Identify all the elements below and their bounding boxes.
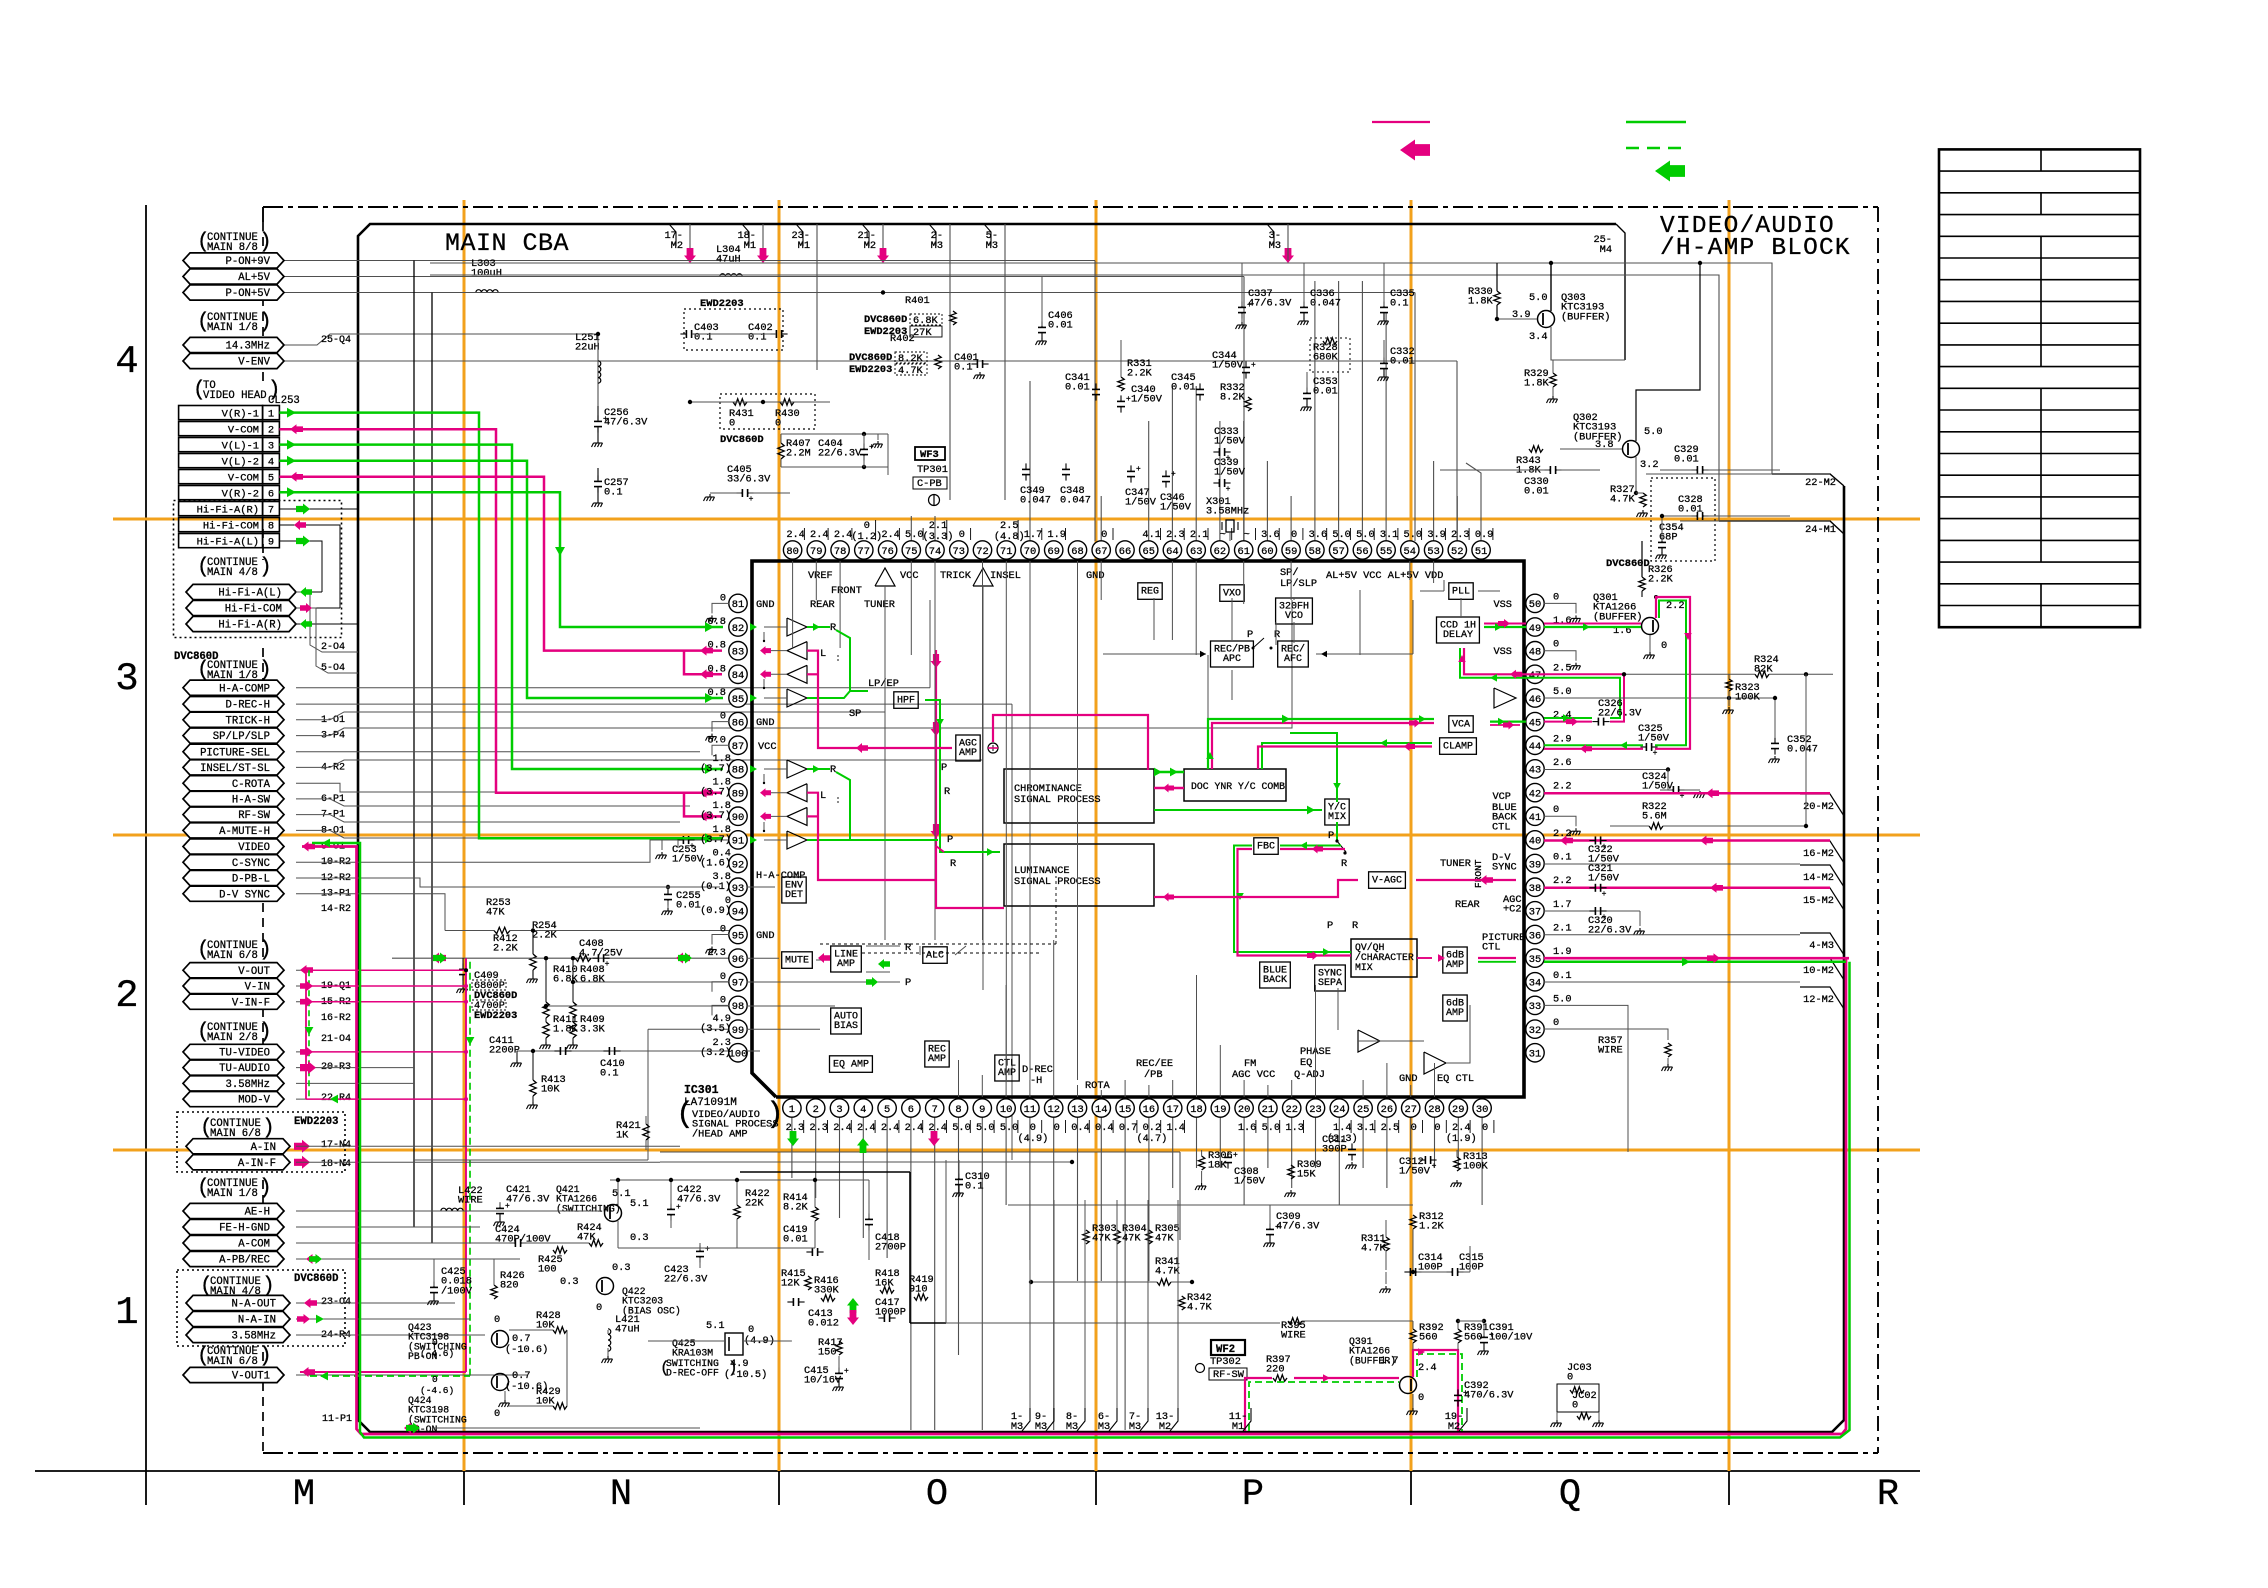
svg-text:R: R — [944, 786, 950, 798]
wire C-SYNC to C253 pin92 — [296, 840, 729, 862]
svg-text:+: + — [1136, 465, 1141, 474]
svg-text:49: 49 — [1529, 623, 1541, 635]
resistor R407 — [778, 443, 784, 459]
svg-text:5.0: 5.0 — [976, 1122, 995, 1134]
wire AL+5V rail — [284, 276, 1244, 278]
orange grid horizontal y519 — [113, 518, 1920, 521]
frame tick bottom x1411 — [1410, 1453, 1412, 1505]
svg-text:GND: GND — [1086, 570, 1105, 582]
svg-text:1.4: 1.4 — [1166, 1122, 1185, 1134]
svg-text:100uH: 100uH — [471, 268, 502, 280]
svg-text:11-P1: 11-P1 — [322, 1414, 352, 1425]
svg-text:10K: 10K — [541, 1084, 560, 1096]
svg-text:47: 47 — [1529, 670, 1541, 682]
svg-text:Hi-Fi-COM: Hi-Fi-COM — [225, 604, 282, 616]
svg-text:2700P: 2700P — [875, 1242, 906, 1254]
svg-text:14.3MHz: 14.3MHz — [225, 341, 270, 353]
svg-text:0: 0 — [1567, 1372, 1573, 1384]
svg-text:3: 3 — [268, 440, 274, 452]
svg-text:17: 17 — [1166, 1104, 1178, 1116]
svg-text:(3.2): (3.2) — [700, 1047, 731, 1059]
svg-text:2.9: 2.9 — [1553, 733, 1572, 745]
svg-text:14-R2: 14-R2 — [321, 904, 351, 915]
transistor Q391 — [1400, 1377, 1417, 1394]
svg-text:(3.7): (3.7) — [700, 810, 731, 822]
svg-text:FBC: FBC — [1257, 841, 1275, 852]
wire Q302 base — [1560, 448, 1622, 450]
EWD2203 dotted box top — [684, 309, 783, 350]
svg-text:2.2K: 2.2K — [532, 930, 558, 942]
svg-text:100K: 100K — [1463, 1161, 1489, 1173]
svg-text:1.7: 1.7 — [1024, 529, 1043, 541]
svg-text:GND: GND — [1399, 1073, 1418, 1085]
svg-text:Hi-Fi-A(L): Hi-Fi-A(L) — [218, 588, 282, 600]
resistor R411 — [545, 1018, 547, 1022]
svg-text:V-COM: V-COM — [228, 472, 259, 484]
block HPF — [894, 692, 918, 709]
block EQ AMP — [830, 1056, 873, 1073]
svg-text:91: 91 — [732, 836, 744, 848]
block Y/C MIX — [1325, 799, 1349, 825]
FBC to QV/QH pair — [1234, 846, 1351, 953]
IC301 pin name labels — [756, 567, 1525, 1092]
svg-text:47K: 47K — [1092, 1233, 1111, 1245]
amp output magenta arrows at pins — [760, 646, 771, 655]
resistor R413 — [531, 1049, 535, 1053]
wire r431 bus — [690, 401, 830, 403]
svg-text:A-COM: A-COM — [238, 1239, 270, 1251]
svg-text:+: + — [1463, 1389, 1468, 1398]
svg-text:2.2: 2.2 — [1553, 875, 1572, 887]
svg-text:+: + — [705, 1245, 710, 1254]
wire 14.3MHz to 25-Q4 — [284, 334, 598, 345]
wire Q425 to pin line — [743, 1340, 792, 1342]
svg-text:28: 28 — [1428, 1104, 1440, 1116]
svg-text:N-A-OUT: N-A-OUT — [231, 1299, 276, 1311]
svg-text:ALC: ALC — [926, 950, 944, 961]
svg-text:TUNER: TUNER — [864, 599, 895, 611]
svg-text:M1: M1 — [798, 240, 810, 252]
svg-text:47/6.3V: 47/6.3V — [604, 417, 648, 429]
connector RF-SW — [183, 807, 284, 822]
svg-text:22: 22 — [1285, 1104, 1297, 1116]
connector H-A-SW — [183, 791, 284, 806]
svg-text:/100V: /100V — [441, 1285, 473, 1297]
svg-text:21-O4: 21-O4 — [321, 1034, 351, 1045]
svg-text:30: 30 — [1476, 1104, 1488, 1116]
resistor R328 — [1310, 338, 1350, 372]
svg-text:(SWITCHING): (SWITCHING) — [556, 1203, 621, 1214]
svg-text:SP: SP — [849, 708, 861, 720]
svg-text:EWD2203: EWD2203 — [294, 1116, 339, 1128]
svg-text:(: ( — [197, 659, 210, 682]
DVC860D dotted box C328 C354 — [1651, 478, 1715, 561]
EWD2203 dotted box — [177, 1112, 345, 1172]
svg-text:0: 0 — [720, 994, 726, 1006]
svg-text:M3: M3 — [1269, 240, 1281, 252]
connector N-A-IN — [186, 1311, 290, 1326]
svg-text:2200P: 2200P — [489, 1045, 520, 1057]
svg-text:Hi-Fi-COM: Hi-Fi-COM — [203, 520, 259, 532]
svg-text:C-ROTA: C-ROTA — [232, 779, 271, 791]
svg-text:CLAMP: CLAMP — [1443, 741, 1473, 752]
svg-text:L: L — [820, 790, 826, 802]
svg-text:0.4: 0.4 — [1071, 1122, 1090, 1134]
svg-text:EWD2203: EWD2203 — [700, 298, 744, 310]
svg-text:39: 39 — [1529, 859, 1541, 871]
wire TU-VIDEO row — [296, 1051, 432, 1053]
svg-text:0.012: 0.012 — [808, 1318, 839, 1330]
svg-text:APC: APC — [1223, 654, 1241, 665]
svg-text:+: + — [1602, 843, 1607, 852]
svg-text:0.01: 0.01 — [1171, 382, 1196, 394]
wire pin45 green from VCA — [1490, 720, 1526, 722]
svg-text:TP301: TP301 — [917, 464, 948, 476]
magenta route V-COM to pins 89/90 — [279, 429, 722, 793]
wire to tab 24-M1 — [1363, 275, 1719, 521]
svg-text:A-IN-F: A-IN-F — [238, 1158, 276, 1170]
svg-text:47uH: 47uH — [615, 1324, 640, 1336]
svg-text:(BUFFER): (BUFFER) — [1593, 611, 1642, 623]
svg-text:(: ( — [660, 1359, 670, 1377]
svg-text:A-IN: A-IN — [251, 1142, 276, 1154]
svg-text:40: 40 — [1529, 836, 1541, 848]
capacitor C409 stack — [462, 958, 464, 968]
svg-text:4: 4 — [268, 456, 274, 468]
svg-text:MUTE: MUTE — [785, 955, 809, 966]
svg-text:GND: GND — [756, 930, 775, 942]
svg-text:CTL: CTL — [1492, 821, 1511, 833]
svg-text:M2: M2 — [671, 240, 683, 252]
colored pin47 to C326 to pin45 loop — [1544, 674, 1624, 721]
transistor Q424 — [492, 1374, 509, 1391]
wire trick down — [884, 586, 886, 598]
svg-text:0: 0 — [494, 1408, 500, 1420]
svg-text:(4.9): (4.9) — [1017, 1133, 1048, 1145]
resistor R253 — [445, 930, 494, 932]
arrow pair A-PB/REC — [306, 1254, 319, 1264]
svg-text:3.4: 3.4 — [1529, 331, 1548, 343]
IC301 right pin stub wires — [1544, 603, 1581, 835]
svg-text:(-4.6): (-4.6) — [420, 1348, 454, 1359]
svg-text:100: 100 — [729, 1049, 748, 1061]
svg-text:N-A-IN: N-A-IN — [238, 1315, 276, 1327]
IC301 left pin stub wires — [706, 603, 730, 1015]
svg-text:1.8K: 1.8K — [1468, 296, 1494, 308]
ground C253 — [661, 840, 663, 850]
green route V(L)-2 to pin85 — [279, 461, 723, 698]
wire A-MUTE-H — [296, 830, 670, 838]
svg-text:0: 0 — [432, 1337, 438, 1348]
svg-text:1.7: 1.7 — [1380, 1355, 1399, 1367]
svg-text:O: O — [926, 1474, 948, 1516]
legend magenta record line — [1372, 121, 1430, 123]
orange grid vertical x1729 — [1728, 200, 1731, 1471]
svg-text:/PB: /PB — [1144, 1069, 1163, 1081]
wire pin39 14-M2 — [1544, 863, 1800, 865]
svg-text:0.01: 0.01 — [1678, 504, 1703, 516]
svg-text:0.01: 0.01 — [1313, 386, 1338, 398]
frame tick bottom x464 — [463, 1453, 465, 1505]
svg-text:22/6.3V: 22/6.3V — [1598, 708, 1642, 720]
connector AL+5V — [183, 269, 284, 284]
wire pin33 12-M2 — [1544, 1005, 1628, 1152]
magenta pin47 to CCD delay loop — [1464, 648, 1544, 674]
svg-text:(3.7): (3.7) — [700, 763, 731, 775]
svg-text:10: 10 — [1000, 1104, 1012, 1116]
block FBC — [1254, 838, 1278, 855]
svg-text:100/10V: 100/10V — [1489, 1332, 1533, 1344]
connector V-OUT1 — [183, 1367, 284, 1382]
svg-text:PICTURE-SEL: PICTURE-SEL — [200, 747, 270, 759]
svg-text:REAR: REAR — [810, 599, 835, 611]
svg-text:R: R — [1352, 920, 1358, 932]
svg-text:Hi-Fi-A(R): Hi-Fi-A(R) — [197, 504, 259, 516]
svg-text:): ) — [262, 1117, 275, 1140]
svg-text:P: P — [941, 762, 947, 774]
wire R312 down — [1412, 1229, 1414, 1272]
svg-text:EQ AMP: EQ AMP — [833, 1059, 869, 1070]
svg-text:0.1: 0.1 — [604, 487, 623, 499]
svg-text:0: 0 — [1434, 1122, 1440, 1134]
bus Q421 emitter rail — [618, 1247, 815, 1249]
frame tick bottom x1096 — [1095, 1453, 1097, 1505]
svg-text:8: 8 — [955, 1104, 961, 1116]
svg-text:14-M2: 14-M2 — [1803, 872, 1834, 884]
svg-text:0.047: 0.047 — [1310, 298, 1341, 310]
transistor Q301 — [1642, 618, 1659, 635]
svg-text:20: 20 — [1238, 1104, 1250, 1116]
svg-text:24: 24 — [1333, 1104, 1345, 1116]
svg-text:BIAS: BIAS — [834, 1021, 858, 1032]
svg-text:1/50V: 1/50V — [1160, 502, 1192, 514]
svg-text:1/50V: 1/50V — [1234, 1176, 1266, 1188]
svg-text:TU-AUDIO: TU-AUDIO — [219, 1063, 270, 1075]
svg-text:R: R — [1341, 858, 1347, 870]
svg-text:77: 77 — [858, 546, 870, 558]
svg-text:CTL: CTL — [1482, 942, 1501, 954]
svg-text:SP/LP/SLP: SP/LP/SLP — [213, 731, 270, 743]
green VIDEO pair vertical — [312, 843, 1850, 1438]
svg-text:+: + — [1432, 1162, 1437, 1171]
svg-text:V-AGC: V-AGC — [1372, 875, 1402, 886]
block BLUE BACK — [1260, 962, 1291, 988]
block ALC — [923, 947, 947, 964]
svg-text:12-M2: 12-M2 — [1803, 994, 1834, 1006]
wire Q391 emitter — [1412, 1394, 1414, 1408]
down arrow V-IN-F — [305, 1027, 314, 1035]
svg-text:(-10.5): (-10.5) — [724, 1369, 767, 1381]
wire V-IN row — [296, 985, 432, 987]
svg-text:3: 3 — [836, 1104, 842, 1116]
block QV/QH CHARACTER MIX — [1351, 939, 1417, 977]
svg-text:R: R — [1274, 629, 1280, 641]
block AGC AMP — [956, 735, 980, 761]
svg-text:3.58MHz: 3.58MHz — [231, 1331, 276, 1343]
svg-text:62: 62 — [1214, 546, 1226, 558]
block LINE AMP — [831, 946, 862, 972]
svg-text:3: 3 — [115, 657, 138, 701]
frame tick bottom x1729 — [1728, 1453, 1730, 1505]
svg-text:REG: REG — [1141, 586, 1159, 597]
svg-text:4.7K: 4.7K — [1187, 1302, 1213, 1314]
svg-text:5.0: 5.0 — [905, 529, 924, 541]
wire D-V SYNC to R253 pin94 — [296, 894, 445, 931]
svg-text:2.2K: 2.2K — [1648, 574, 1674, 586]
vertical bus from P-ON+5V — [431, 293, 433, 1244]
svg-text:+: + — [1126, 395, 1131, 404]
svg-text:6.8K: 6.8K — [553, 974, 579, 986]
wire pin38 magenta 15-M2 — [1544, 887, 1830, 890]
svg-text:0.01: 0.01 — [1524, 486, 1549, 498]
IC301 right pins 50-31 — [1526, 591, 1572, 1062]
wire Q425 5.1 line — [648, 1340, 725, 1342]
resistor R254 — [531, 928, 535, 932]
svg-text:37: 37 — [1529, 907, 1541, 919]
svg-text:0.1: 0.1 — [1553, 852, 1572, 864]
svg-text:2.6: 2.6 — [1553, 757, 1572, 769]
svg-text:ROTA: ROTA — [1085, 1080, 1111, 1092]
svg-text:DOC YNR Y/C COMB: DOC YNR Y/C COMB — [1191, 781, 1285, 792]
magenta AGC AMP wires — [988, 747, 998, 749]
wire P-ON+5V rail — [284, 292, 1415, 294]
VCA pair from DOC YNR — [1208, 719, 1434, 769]
svg-text:M2: M2 — [1448, 1421, 1460, 1433]
svg-text:DELAY: DELAY — [1443, 630, 1473, 641]
connector A-COM — [183, 1235, 284, 1250]
svg-text:26: 26 — [1381, 1104, 1393, 1116]
svg-text:HPF: HPF — [897, 695, 915, 706]
svg-text:4.7K: 4.7K — [1610, 494, 1636, 506]
svg-text:4.1: 4.1 — [1142, 529, 1161, 541]
capacitor C408 — [592, 957, 598, 959]
wire pin99 — [648, 1028, 729, 1030]
magenta web chrominance — [807, 651, 952, 748]
block VCA — [1449, 716, 1473, 733]
svg-text:WF2: WF2 — [1216, 1344, 1235, 1356]
svg-text:1.8K: 1.8K — [1516, 465, 1542, 477]
svg-text:71: 71 — [1000, 546, 1012, 558]
svg-text:+: + — [1489, 1331, 1494, 1340]
svg-text:76: 76 — [881, 546, 893, 558]
svg-text:P-ON+5V: P-ON+5V — [225, 288, 270, 300]
svg-text:0.8: 0.8 — [707, 687, 726, 699]
svg-text:TP302: TP302 — [1210, 1356, 1241, 1368]
svg-text:0.047: 0.047 — [1787, 744, 1818, 756]
svg-text:H-A-COMP: H-A-COMP — [219, 683, 270, 695]
svg-text:C-PB: C-PB — [917, 478, 942, 490]
svg-text:MIX: MIX — [1355, 962, 1373, 973]
svg-text:0: 0 — [959, 529, 965, 541]
wire Q301 emitter gnd — [1649, 635, 1651, 652]
svg-text:AE-H: AE-H — [245, 1207, 270, 1219]
resistor R430 — [780, 399, 794, 405]
svg-text:VCA: VCA — [1452, 719, 1470, 730]
svg-text:2: 2 — [268, 424, 274, 436]
svg-text:0: 0 — [1553, 804, 1559, 816]
revision table top right — [1939, 149, 2140, 627]
svg-text:+: + — [749, 495, 754, 504]
left column dashed border — [262, 222, 264, 385]
connector AE-H — [183, 1203, 284, 1218]
capacitor C255 — [666, 885, 670, 889]
CLAMP pair to DOC YNR — [1262, 743, 1432, 769]
svg-text:(0.9): (0.9) — [700, 905, 731, 917]
svg-text:MAIN 2/8: MAIN 2/8 — [207, 1032, 258, 1044]
wire V-ENV — [284, 360, 1457, 362]
arrow Hi-Fi-COM row — [294, 520, 306, 530]
wire SP/LP/SLP — [296, 600, 1292, 736]
svg-text:R: R — [1877, 1474, 1899, 1516]
svg-text:P: P — [1328, 830, 1334, 842]
svg-text:M3: M3 — [1066, 1421, 1078, 1433]
svg-text:78: 78 — [834, 546, 846, 558]
svg-text:DVC860D: DVC860D — [864, 314, 907, 326]
svg-text:75: 75 — [905, 546, 917, 558]
transistor Q303 — [1538, 311, 1555, 328]
green web chrom to Y/C MIX — [1154, 809, 1322, 811]
svg-text:33: 33 — [1529, 1001, 1541, 1013]
connector V-OUT — [183, 963, 284, 978]
svg-text:5.6M: 5.6M — [1642, 811, 1667, 823]
svg-text:84: 84 — [732, 670, 744, 682]
input amplifier triangles — [787, 618, 807, 849]
svg-text:DET: DET — [785, 890, 803, 901]
svg-text:2: 2 — [813, 1104, 819, 1116]
magenta arrow A-IN-F — [294, 1156, 310, 1169]
svg-text:(1.9): (1.9) — [1446, 1133, 1477, 1145]
magenta wire TU-VIDEO — [300, 1047, 313, 1057]
svg-text:4.7/25V: 4.7/25V — [579, 948, 623, 960]
svg-text:): ) — [259, 556, 272, 579]
svg-text:18-N4: 18-N4 — [321, 1159, 351, 1170]
IC301 top pins 80-51 — [783, 520, 1493, 559]
wire insel down — [982, 586, 984, 598]
connector V-IN — [183, 978, 284, 993]
svg-text:(: ( — [200, 1117, 213, 1140]
svg-text:): ) — [259, 231, 272, 254]
block boundary dash-dot border — [263, 206, 1878, 208]
svg-text:63: 63 — [1190, 546, 1202, 558]
DVC860D dotted box — [177, 1270, 345, 1346]
svg-text:27K: 27K — [913, 327, 932, 339]
svg-text:88: 88 — [732, 765, 744, 777]
svg-text:FE-H-GND: FE-H-GND — [219, 1223, 270, 1235]
svg-text:0: 0 — [596, 1302, 602, 1314]
svg-text:72: 72 — [976, 546, 988, 558]
svg-text:1/50V: 1/50V — [1642, 781, 1674, 793]
svg-text:+: + — [1247, 301, 1252, 310]
svg-text:+: + — [505, 1202, 510, 1211]
svg-text:0: 0 — [1553, 1017, 1559, 1029]
svg-text:5.0: 5.0 — [1332, 529, 1351, 541]
svg-text:VXO: VXO — [1223, 588, 1241, 599]
svg-text:820: 820 — [500, 1280, 519, 1292]
svg-text:(: ( — [197, 1345, 210, 1368]
svg-text:58: 58 — [1309, 546, 1321, 558]
svg-text:+: + — [1602, 890, 1607, 899]
green CCD loop — [1484, 626, 1526, 628]
svg-text:2.1: 2.1 — [1190, 529, 1209, 541]
arrow hexagon Hi-Fi-A(R) — [300, 619, 312, 629]
svg-text:12K: 12K — [781, 1278, 800, 1290]
svg-text:2.3: 2.3 — [1451, 529, 1470, 541]
wire 24-M1 horiz — [1680, 520, 1830, 522]
svg-text:5.0: 5.0 — [1529, 292, 1548, 304]
svg-text:INSEL: INSEL — [990, 570, 1021, 582]
svg-text:56: 56 — [1356, 546, 1368, 558]
svg-text:60: 60 — [1261, 546, 1273, 558]
